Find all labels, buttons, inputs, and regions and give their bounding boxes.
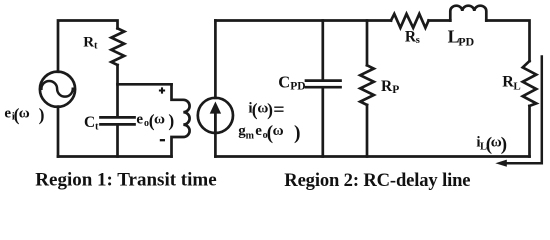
svg-text:L: L (513, 81, 520, 93)
svg-text:s: s (416, 35, 420, 46)
wire RL bottom (528, 106, 531, 157)
capacitor CPD branch top (321, 21, 324, 80)
svg-text:ω: ω (273, 123, 284, 139)
svg-text:t: t (95, 121, 99, 132)
resistor RP (360, 65, 374, 105)
current source arrow shaft (214, 110, 217, 131)
wire region1 bottom (58, 155, 172, 158)
svg-text:ω: ω (19, 105, 30, 121)
svg-text:C: C (84, 114, 95, 131)
svg-text:e: e (4, 105, 11, 121)
capacitor Ct (101, 117, 135, 124)
svg-text:Region 2: RC-delay line: Region 2: RC-delay line (284, 170, 470, 191)
wire iL arrow path (506, 57, 542, 164)
svg-text:m: m (246, 130, 255, 141)
svg-text:R: R (381, 78, 393, 95)
svg-text:=: = (273, 99, 284, 121)
inductor eo coil (172, 84, 190, 156)
wire RP bottom (366, 105, 369, 157)
wire Rt bottom to Ct (116, 65, 119, 116)
svg-text:): ) (501, 134, 507, 155)
svg-text:): ) (294, 123, 301, 144)
wire source bottom (57, 107, 60, 157)
svg-text:e: e (255, 123, 262, 139)
resistor Rs (391, 14, 429, 28)
svg-text:R: R (502, 74, 514, 91)
resistor Rt (111, 28, 124, 65)
source ei circle (40, 72, 75, 107)
current source circle (198, 98, 233, 133)
current source arrow head (210, 102, 221, 114)
sine wave inside source (41, 81, 72, 97)
svg-text:PD: PD (458, 35, 474, 49)
wire node A horizontal (118, 83, 172, 86)
svg-text:): ) (168, 110, 174, 130)
wire Ct bottom (116, 126, 119, 157)
wire current source bottom (214, 133, 217, 157)
svg-text:R: R (83, 35, 94, 51)
resistor RL (523, 61, 537, 106)
svg-text:e: e (136, 111, 143, 127)
wire region2 left vertical (214, 21, 217, 98)
label plus (159, 87, 165, 93)
inductor LPD (450, 6, 486, 21)
svg-text:C: C (278, 73, 290, 92)
capacitor CPD (306, 81, 341, 88)
svg-text:): ) (267, 100, 273, 120)
svg-text:): ) (39, 104, 45, 124)
wire LPD to corner (486, 21, 529, 62)
wire region2 bottom rail (215, 155, 529, 158)
svg-text:PD: PD (290, 81, 305, 93)
wire region2 top rail (215, 19, 391, 22)
wire region1 left vertical top (58, 21, 118, 72)
wire RP branch top (366, 21, 369, 66)
iL arrow head (495, 160, 507, 167)
wire CPD bottom (321, 88, 324, 156)
label minus (160, 139, 165, 141)
svg-text:P: P (392, 84, 399, 96)
svg-text:Region 1: Transit time: Region 1: Transit time (35, 169, 216, 190)
svg-text:ω: ω (154, 111, 165, 127)
wire Rs to LPD (429, 19, 451, 22)
svg-text:t: t (94, 41, 98, 52)
